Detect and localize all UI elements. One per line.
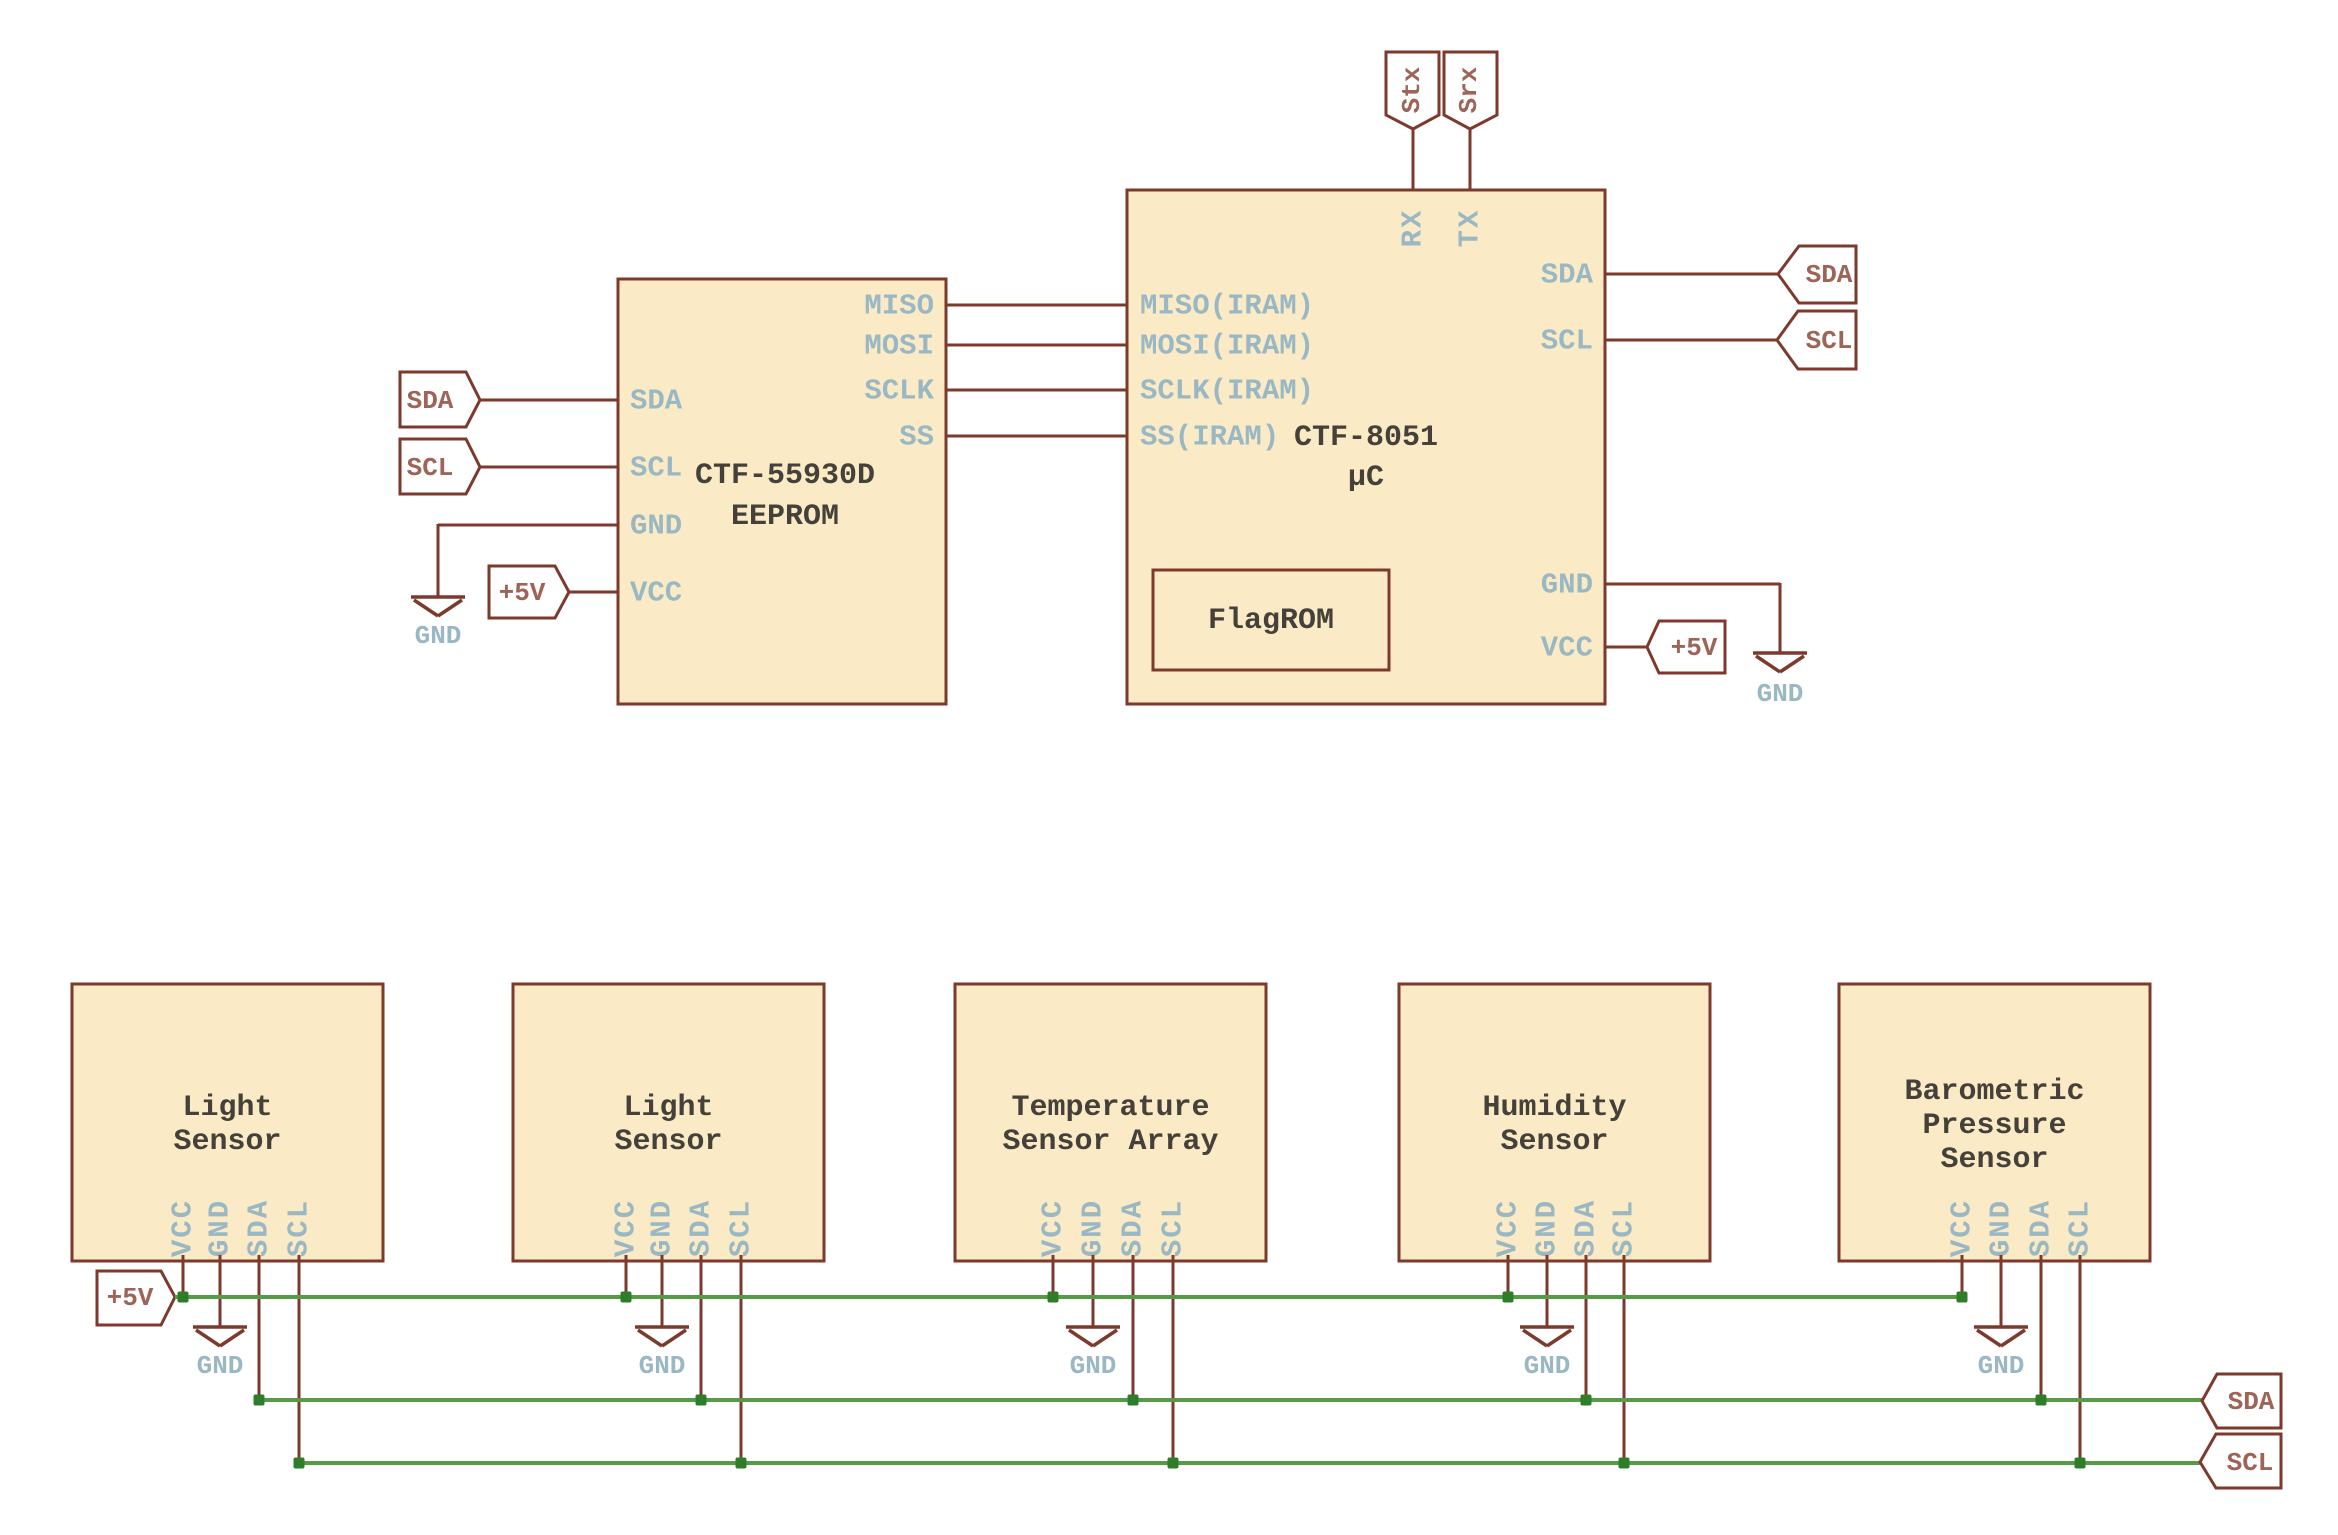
pin SCL of sensor U4 [725,1199,758,1257]
svg-text:GND: GND [1985,1199,2018,1257]
global label SCL (uC right) [1777,311,1856,369]
ground symbol (sensor U6) [1520,1327,1574,1381]
junction SCL rail sensor U6 [1619,1458,1630,1469]
microcontroller U2 CTF-8051 component body [1127,190,1605,704]
svg-text:SCL: SCL [725,1199,758,1257]
wire uC SCL [1605,339,1777,342]
wire SCL drop sensor U5 [1172,1255,1175,1463]
svg-text:CTF-55930D: CTF-55930D [695,459,875,493]
junction VCC rail sensor U7 [1957,1292,1968,1303]
svg-text:SS: SS [899,421,934,454]
svg-text:SDA: SDA [630,385,683,418]
svg-text:GND: GND [197,1351,244,1381]
svg-text:SCL: SCL [1608,1199,1641,1257]
wire +5V to EEPROM VCC [569,591,618,594]
wire SDA drop sensor U5 [1132,1255,1135,1400]
wire uC VCC [1605,646,1647,649]
pin SCL of sensor U7 [2064,1199,2097,1257]
wire uC GND [1605,583,1780,653]
svg-text:VCC: VCC [1492,1199,1525,1257]
svg-text:µC: µC [1348,461,1384,495]
ground symbol (sensor U3) [193,1327,247,1381]
pin VCC of sensor U6 [1492,1199,1525,1257]
junction SDA rail sensor U6 [1581,1395,1592,1406]
global label SDA (uC right) [1778,246,1856,303]
pin SCL of sensor U6 [1608,1199,1641,1257]
pin GND of sensor U5 [1077,1199,1110,1257]
wire SDA drop sensor U4 [700,1255,703,1400]
FlagROM block inside CTF-8051 [1153,570,1389,670]
svg-text:Sensor: Sensor [1940,1143,2048,1177]
svg-text:SCL: SCL [630,452,682,485]
wire Stx to RX [1412,129,1415,190]
pin SDA of sensor U5 [1117,1199,1150,1257]
svg-text:Light: Light [623,1091,713,1125]
EEPROM U1 CTF-55930D component body [618,279,946,704]
SCL bus rail wire [299,1461,2200,1465]
svg-text:Srx: Srx [1454,67,1484,114]
svg-text:SCL: SCL [1157,1199,1190,1257]
svg-text:SDA: SDA [243,1199,276,1257]
wire VCC drop sensor U4 [625,1255,628,1297]
pin VCC of EEPROM [630,577,682,610]
pin SCL of sensor U3 [283,1199,316,1257]
svg-text:FlagROM: FlagROM [1208,604,1334,638]
junction VCC rail sensor U3 [178,1292,189,1303]
svg-text:GND: GND [639,1351,686,1381]
svg-text:GND: GND [1541,569,1593,602]
svg-text:SDA: SDA [2228,1387,2275,1417]
svg-text:SCLK(IRAM): SCLK(IRAM) [1140,375,1314,408]
svg-text:GND: GND [1757,679,1804,709]
svg-text:TX: TX [1454,209,1487,248]
svg-text:SCL: SCL [2064,1199,2097,1257]
pin GND of uC [1541,569,1593,602]
junction SDA rail sensor U5 [1128,1395,1139,1406]
pin MISO(IRAM) of uC [1140,290,1314,323]
svg-text:VCC: VCC [630,577,682,610]
svg-text:SCL: SCL [1806,326,1853,356]
sensor U3 Light Sensor component body [72,984,383,1261]
global label SCL (bus right) [2200,1434,2281,1488]
sensor U4 Light Sensor component body [513,984,824,1261]
SDA bus rail wire [259,1398,2202,1402]
wire GND drop sensor U5 [1092,1255,1095,1327]
pin SDA of sensor U7 [2025,1199,2058,1257]
svg-text:Stx: Stx [1397,67,1427,114]
pin MISO of EEPROM [864,290,934,323]
global label SDA (bus right) [2202,1374,2281,1428]
pin SDA of uC [1541,259,1594,292]
wire SDA drop sensor U3 [258,1255,261,1400]
svg-text:GND: GND [646,1199,679,1257]
wire VCC drop sensor U5 [1052,1255,1055,1297]
global label SDA (left) [400,372,480,427]
pin VCC of sensor U4 [610,1199,643,1257]
pin GND of sensor U4 [646,1199,679,1257]
svg-text:SCL: SCL [2227,1448,2274,1478]
svg-text:Sensor: Sensor [1500,1125,1608,1159]
junction VCC rail sensor U6 [1503,1292,1514,1303]
wire SDA drop sensor U6 [1585,1255,1588,1400]
wire EEPROM GND [438,524,618,597]
sensor U6 Humidity Sensor component body [1399,984,1710,1261]
svg-text:GND: GND [630,510,682,543]
junction SDA rail sensor U3 [254,1395,265,1406]
wire VCC drop sensor U6 [1507,1255,1510,1297]
pin RX of uC [1397,209,1430,248]
svg-text:VCC: VCC [1541,632,1593,665]
svg-text:VCC: VCC [1037,1199,1070,1257]
svg-text:CTF-8051: CTF-8051 [1294,421,1438,455]
pin VCC of uC [1541,632,1593,665]
svg-text:MISO(IRAM): MISO(IRAM) [1140,290,1314,323]
svg-text:GND: GND [1531,1199,1564,1257]
svg-text:EEPROM: EEPROM [731,500,839,534]
svg-text:SDA: SDA [407,386,454,416]
svg-text:Sensor: Sensor [614,1125,722,1159]
wire VCC drop sensor U3 [182,1255,185,1297]
pin GND of sensor U6 [1531,1199,1564,1257]
svg-text:GND: GND [1077,1199,1110,1257]
junction SCL rail sensor U7 [2075,1458,2086,1469]
svg-text:SDA: SDA [1541,259,1594,292]
sensor U7 Barometric Pressure Sensor component body [1839,984,2150,1261]
svg-text:Sensor Array: Sensor Array [1002,1125,1218,1159]
wire SCL to EEPROM [480,466,618,469]
junction SDA rail sensor U4 [696,1395,707,1406]
svg-text:Sensor: Sensor [173,1125,281,1159]
svg-text:Light: Light [182,1091,272,1125]
svg-text:GND: GND [1524,1351,1571,1381]
wire SDA drop sensor U7 [2040,1255,2043,1400]
svg-text:MISO: MISO [864,290,934,323]
pin SCLK(IRAM) of uC [1140,375,1314,408]
pin SDA of sensor U4 [685,1199,718,1257]
pin SDA of sensor U6 [1570,1199,1603,1257]
wire MOSI [946,344,1127,347]
svg-text:VCC: VCC [1946,1199,1979,1257]
svg-text:SCL: SCL [283,1199,316,1257]
svg-text:SDA: SDA [1117,1199,1150,1257]
svg-text:VCC: VCC [167,1199,200,1257]
ground symbol (sensor U7) [1974,1327,2028,1381]
pin VCC of sensor U3 [167,1199,200,1257]
pin SCLK of EEPROM [864,375,934,408]
hierarchical label Srx [1444,52,1497,129]
pin TX of uC [1454,209,1487,248]
pin SCL of uC [1541,325,1593,358]
junction SCL rail sensor U4 [736,1458,747,1469]
wire GND drop sensor U7 [2000,1255,2003,1327]
pin SS of EEPROM [899,421,934,454]
hierarchical label Stx [1386,52,1439,129]
wire VCC drop sensor U7 [1961,1255,1964,1297]
ground symbol (uC) [1753,653,1807,709]
svg-text:SCL: SCL [407,453,454,483]
pin GND of sensor U3 [204,1199,237,1257]
junction SCL rail sensor U5 [1168,1458,1179,1469]
pin MOSI(IRAM) of uC [1140,330,1314,363]
pin MOSI of EEPROM [864,330,934,363]
svg-text:Barometric: Barometric [1904,1075,2084,1109]
wire SCLK [946,389,1127,392]
pin GND of sensor U7 [1985,1199,2018,1257]
junction SCL rail sensor U3 [294,1458,305,1469]
svg-text:+5V: +5V [499,578,546,608]
wire SCL drop sensor U6 [1623,1255,1626,1463]
pin VCC of sensor U7 [1946,1199,1979,1257]
wire MISO [946,304,1127,307]
power flag +5V (uC) [1647,621,1725,673]
global label SCL (left) [400,439,480,494]
wire SCL drop sensor U3 [298,1255,301,1463]
wire GND drop sensor U3 [219,1255,222,1327]
junction SDA rail sensor U7 [2036,1395,2047,1406]
pin SS(IRAM) of uC [1140,421,1279,454]
pin SDA of EEPROM [630,385,683,418]
ground symbol (sensor U4) [635,1327,689,1381]
svg-text:GND: GND [1070,1351,1117,1381]
pin VCC of sensor U5 [1037,1199,1070,1257]
svg-text:+5V: +5V [1671,633,1718,663]
ground symbol (EEPROM) [411,597,465,651]
svg-text:VCC: VCC [610,1199,643,1257]
pin SCL of sensor U5 [1157,1199,1190,1257]
svg-text:SS(IRAM): SS(IRAM) [1140,421,1279,454]
svg-text:Humidity: Humidity [1482,1091,1626,1125]
junction VCC rail sensor U4 [621,1292,632,1303]
ground symbol (sensor U5) [1066,1327,1120,1381]
svg-text:RX: RX [1397,209,1430,248]
svg-text:Pressure: Pressure [1922,1109,2066,1143]
wire SCL drop sensor U7 [2079,1255,2082,1463]
svg-text:MOSI(IRAM): MOSI(IRAM) [1140,330,1314,363]
wire GND drop sensor U4 [661,1255,664,1327]
power flag +5V (EEPROM) [489,566,569,618]
wire GND drop sensor U6 [1546,1255,1549,1327]
svg-text:Temperature: Temperature [1011,1091,1209,1125]
pin GND of EEPROM [630,510,682,543]
svg-text:SDA: SDA [2025,1199,2058,1257]
wire SCL drop sensor U4 [740,1255,743,1463]
svg-text:GND: GND [1978,1351,2025,1381]
sensor U5 Temperature Sensor Array component body [955,984,1266,1261]
svg-text:SDA: SDA [685,1199,718,1257]
svg-text:+5V: +5V [107,1283,154,1313]
svg-text:SDA: SDA [1570,1199,1603,1257]
wire SS [946,435,1127,438]
svg-text:MOSI: MOSI [864,330,934,363]
power flag +5V (sensor rail) [97,1271,175,1325]
wire uC SDA [1605,273,1778,276]
wire SDA to EEPROM [480,399,618,402]
wire Srx to TX [1469,129,1472,190]
svg-text:GND: GND [415,621,462,651]
svg-text:SCL: SCL [1541,325,1593,358]
pin SCL of EEPROM [630,452,682,485]
junction VCC rail sensor U5 [1048,1292,1059,1303]
svg-text:SDA: SDA [1806,260,1853,290]
pin SDA of sensor U3 [243,1199,276,1257]
+5V power rail wire [175,1295,1962,1299]
svg-text:SCLK: SCLK [864,375,934,408]
svg-text:GND: GND [204,1199,237,1257]
